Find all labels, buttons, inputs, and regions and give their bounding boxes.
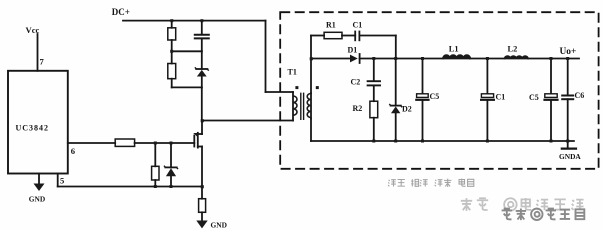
svg-text:D2: D2 [402,105,412,114]
svg-text:GND: GND [211,221,227,230]
svg-text:UC3842: UC3842 [16,124,50,133]
svg-text:L1: L1 [449,45,459,54]
svg-text:Vcc: Vcc [26,25,40,35]
svg-text:Uo+: Uo+ [560,47,577,57]
svg-text:C5: C5 [529,93,539,102]
svg-text:C1: C1 [496,93,506,102]
svg-text:T1: T1 [288,68,297,77]
svg-text:6: 6 [71,146,76,156]
svg-text:L2: L2 [508,45,518,54]
svg-text:5: 5 [60,176,64,186]
svg-text:C5: C5 [430,92,440,101]
svg-text:R2: R2 [353,104,363,113]
svg-text:GND: GND [29,195,45,204]
svg-text:D1: D1 [348,45,358,54]
svg-text:GNDA: GNDA [559,152,581,161]
svg-text:C2: C2 [351,78,361,87]
svg-text:C1: C1 [353,21,363,30]
svg-text:C6: C6 [575,91,585,100]
svg-text:DC+: DC+ [112,7,130,17]
svg-text:7: 7 [40,57,45,67]
svg-text:R1: R1 [326,21,336,30]
